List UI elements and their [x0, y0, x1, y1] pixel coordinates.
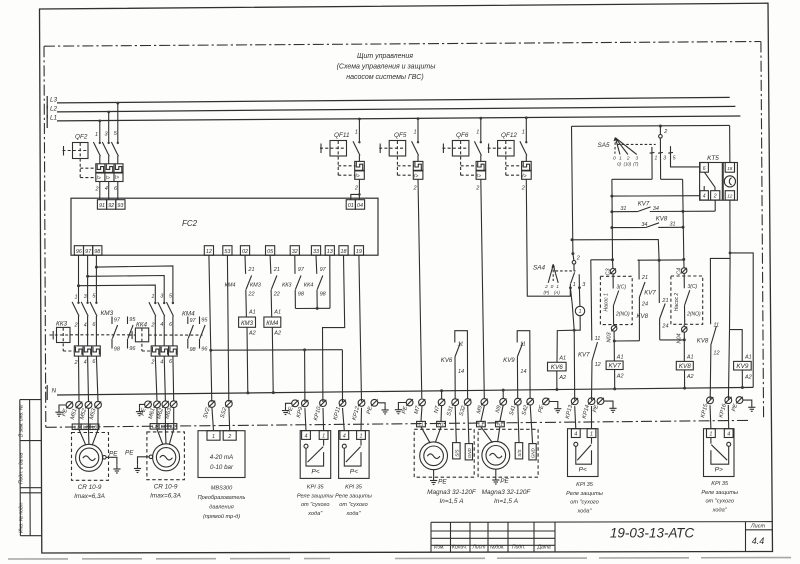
svg-text:QF11: QF11 — [334, 132, 350, 139]
svg-text:Изм.: Изм. — [434, 545, 445, 551]
svg-text:KV8: KV8 — [679, 363, 692, 370]
svg-text:L2: L2 — [161, 424, 167, 429]
svg-text:21: 21 — [641, 275, 648, 281]
svg-text:CR 10-9: CR 10-9 — [154, 484, 178, 491]
wires M7..S42 into pumps — [421, 405, 533, 444]
svg-text:КК4: КК4 — [304, 282, 314, 288]
bus L1 — [47, 115, 740, 128]
svg-text:I>: I> — [355, 174, 359, 180]
svg-text:2: 2 — [150, 360, 154, 366]
wires KP13 KP14 to KPI relay 3 — [575, 406, 592, 429]
svg-text:KV9: KV9 — [736, 363, 749, 370]
svg-text:S/S: S/S — [454, 450, 459, 457]
wire h-run to KV8 branch — [572, 240, 659, 261]
KK3 aux contacts 97-98 95-96 — [112, 317, 133, 349]
contactor KM3 power contacts — [72, 255, 98, 346]
N right riser to KT5-12 net — [730, 253, 753, 388]
svg-text:A2: A2 — [616, 374, 624, 380]
svg-text:Реле защиты: Реле защиты — [701, 490, 738, 496]
svg-text:I>: I> — [115, 175, 119, 181]
svg-text:4: 4 — [574, 432, 577, 438]
svg-text:A1: A1 — [273, 309, 281, 315]
frequency converter FC2 — [71, 198, 378, 255]
svg-text:A1: A1 — [744, 355, 752, 361]
wires to motor 1 terminals — [79, 356, 99, 401]
svg-text:12: 12 — [713, 351, 719, 357]
svg-text:I>: I> — [106, 175, 110, 181]
relay contact KV8 34-31 — [610, 223, 684, 229]
svg-text:2: 2 — [74, 360, 78, 366]
svg-text:21: 21 — [273, 267, 280, 273]
svg-text:98: 98 — [190, 347, 197, 353]
svg-text:хода": хода" — [307, 511, 323, 517]
circuit breaker QF11 — [320, 118, 364, 200]
svg-text:04: 04 — [357, 203, 363, 209]
svg-text:КМ4: КМ4 — [266, 320, 279, 327]
svg-text:Подп. и дата: Подп. и дата — [18, 452, 24, 484]
coil KM3 labels — [225, 267, 256, 337]
svg-text:КМ3: КМ3 — [101, 310, 114, 317]
svg-text:KV8: KV8 — [656, 215, 668, 222]
svg-text:Щит управления: Щит управления — [357, 53, 413, 60]
svg-text:КК4: КК4 — [136, 321, 148, 328]
svg-text:SA4: SA4 — [533, 264, 546, 271]
svg-text:2: 2 — [663, 129, 667, 135]
selector switch SA4 — [548, 264, 575, 283]
coil KM4 labels — [250, 267, 281, 337]
svg-text:11: 11 — [713, 323, 719, 329]
svg-text:53: 53 — [224, 249, 230, 255]
thermal relay KK4 — [129, 328, 203, 356]
svg-text:KV7: KV7 — [578, 352, 590, 359]
svg-text:98: 98 — [298, 292, 305, 298]
svg-text:L2: L2 — [83, 424, 89, 429]
svg-text:12: 12 — [206, 249, 212, 255]
svg-text:14: 14 — [520, 369, 526, 375]
wire FC2-53 to SS2 — [227, 255, 228, 401]
svg-text:I>: I> — [97, 176, 101, 182]
svg-text:KT5: KT5 — [707, 155, 719, 162]
svg-text:(10): (10) — [624, 161, 632, 166]
svg-text:1: 1 — [414, 130, 417, 136]
svg-text:98: 98 — [94, 249, 100, 255]
wire SA5-3 down to C4, pump2 aux, coil KV8 — [676, 179, 693, 389]
svg-text:21: 21 — [661, 298, 668, 304]
circuit breaker QF2 — [63, 102, 124, 200]
circuit breaker QF6 — [442, 117, 485, 399]
svg-text:12: 12 — [727, 194, 733, 199]
svg-text:1: 1 — [709, 432, 712, 438]
svg-text:22: 22 — [247, 292, 254, 298]
relay contact KV7 31-34 — [610, 200, 715, 213]
wire branch to KP9 and KP11 — [211, 348, 343, 402]
motor M2 CR 10-9 — [134, 408, 185, 480]
svg-text:02: 02 — [242, 249, 248, 255]
svg-text:A2: A2 — [558, 375, 566, 381]
svg-text:KV6: KV6 — [551, 364, 564, 371]
time relay KT5 — [700, 163, 738, 201]
svg-text:4: 4 — [305, 433, 308, 439]
svg-text:4: 4 — [703, 194, 706, 200]
svg-text:(Т): (Т) — [633, 161, 639, 166]
bus L3 — [47, 96, 730, 109]
svg-text:Р˂: Р˂ — [350, 469, 358, 476]
svg-text:05: 05 — [267, 249, 274, 255]
svg-text:QF2: QF2 — [75, 134, 88, 141]
svg-text:In=1,5 А: In=1,5 А — [440, 498, 464, 505]
PE ground symbols — [55, 400, 755, 416]
svg-text:хода": хода" — [345, 511, 361, 517]
svg-text:QF12: QF12 — [501, 132, 517, 139]
wire KT5-4 feed — [610, 195, 700, 198]
svg-text:(прямой тр-д): (прямой тр-д) — [203, 513, 240, 520]
title block texts — [434, 524, 765, 551]
svg-text:24: 24 — [661, 324, 668, 330]
wire branches FC2 outputs to KM4 — [79, 266, 173, 303]
svg-text:КК3: КК3 — [282, 282, 292, 288]
pump 2 built-in aux switch (Насос 2) — [671, 276, 703, 324]
svg-text:97: 97 — [320, 267, 327, 273]
svg-text:KPI 35: KPI 35 — [711, 481, 729, 487]
svg-text:97: 97 — [114, 318, 121, 324]
svg-text:Реле защиты: Реле защиты — [566, 491, 603, 497]
svg-text:19: 19 — [356, 249, 362, 255]
circuit breaker QF5 — [379, 117, 423, 398]
svg-text:98: 98 — [114, 347, 121, 353]
svg-text:Р˂: Р˂ — [311, 469, 319, 476]
circuit breaker QF12 — [488, 116, 571, 296]
title block — [431, 522, 772, 552]
svg-text:KPI 35: KPI 35 — [345, 485, 363, 491]
svg-text:Magna3 32-120F: Magna3 32-120F — [427, 489, 477, 496]
wire bus down to KT5-18 — [729, 125, 731, 162]
svg-text:1: 1 — [151, 294, 154, 300]
svg-text:PE: PE — [438, 478, 447, 485]
wire N7 to N bus — [440, 389, 443, 399]
svg-text:L1: L1 — [478, 422, 484, 427]
svg-text:1: 1 — [95, 132, 98, 138]
svg-text:2: 2 — [150, 323, 154, 329]
svg-text:PE: PE — [109, 451, 118, 458]
svg-text:KV7: KV7 — [609, 363, 622, 370]
svg-text:4: 4 — [105, 186, 108, 192]
svg-text:L1: L1 — [418, 422, 424, 427]
svg-text:Лист: Лист — [750, 524, 766, 530]
wire FC2-18 to KP10 — [323, 255, 345, 402]
KK4 aux contacts 97-98 95-96 — [188, 317, 205, 349]
svg-text:4: 4 — [84, 322, 87, 328]
svg-text:A2: A2 — [686, 374, 694, 380]
terminal row labels — [61, 403, 739, 422]
svg-text:11: 11 — [458, 342, 464, 348]
terminal row circles — [66, 397, 743, 409]
svg-text:2: 2 — [475, 186, 479, 192]
svg-text:С4: С4 — [676, 268, 682, 275]
svg-text:1: 1 — [212, 434, 215, 440]
wire FC2-02, aux contact KM4 21-22, coil KM3 — [239, 255, 256, 394]
svg-text:1: 1 — [360, 433, 363, 439]
wires KP9-KP12 to KPI relays — [305, 408, 362, 431]
svg-text:L1: L1 — [74, 424, 80, 429]
svg-text:Инв. № подл.: Инв. № подл. — [18, 502, 24, 533]
svg-text:0): 0) — [617, 161, 621, 166]
neutral bus N — [47, 385, 753, 400]
svg-text:Р˂: Р˂ — [579, 467, 587, 474]
svg-text:1: 1 — [655, 156, 658, 162]
svg-text:2: 2 — [413, 186, 417, 192]
svg-text:4.4: 4.4 — [752, 536, 765, 546]
svg-text:18: 18 — [727, 166, 733, 171]
wire FC2-19 to KP12 — [359, 255, 362, 401]
svg-text:L1: L1 — [152, 424, 158, 429]
svg-text:32: 32 — [292, 249, 298, 255]
svg-text:N: N — [52, 388, 57, 395]
contactor KM4 power contacts — [149, 302, 174, 346]
wire run C4 feed — [638, 259, 684, 262]
selector switch SA5 — [612, 126, 700, 179]
svg-text:2: 2 — [95, 187, 99, 193]
svg-text:N04: N04 — [677, 333, 683, 343]
svg-text:MBS300: MBS300 — [211, 486, 233, 492]
svg-text:31: 31 — [670, 221, 676, 227]
svg-text:A2: A2 — [273, 331, 281, 337]
svg-text:4: 4 — [84, 360, 87, 366]
dry-run protection relay KPI35 #2 — [339, 431, 370, 479]
svg-text:34: 34 — [653, 206, 659, 212]
svg-text:насосом системы ГВС): насосом системы ГВС) — [346, 74, 423, 81]
svg-text:96: 96 — [201, 347, 208, 353]
relay contact KV7 21-24 — [614, 260, 645, 341]
wires to motor 2 terminals — [155, 356, 173, 401]
svg-text:PE: PE — [125, 450, 134, 457]
svg-text:12: 12 — [595, 362, 601, 368]
left attribute column block — [20, 400, 42, 536]
svg-text:4: 4 — [160, 322, 163, 328]
svg-text:A2: A2 — [248, 331, 256, 337]
svg-text:2: 2 — [521, 186, 525, 192]
pump 1 built-in aux switch (Насос 1) — [600, 276, 632, 324]
svg-text:Р˃: Р˃ — [715, 467, 723, 474]
svg-text:A1: A1 — [686, 355, 694, 361]
svg-text:QF6: QF6 — [456, 132, 469, 139]
svg-text:№док.: №док. — [490, 545, 505, 551]
left column rotated texts — [18, 404, 24, 533]
dry-run protection relay KPI35 #4 — [704, 429, 735, 477]
svg-text:31: 31 — [620, 206, 626, 212]
svg-text:КМ4: КМ4 — [225, 282, 236, 288]
relay contact KV8 11-12 to KP15 — [710, 326, 716, 399]
svg-text:I>: I> — [522, 174, 526, 180]
svg-text:1: 1 — [522, 130, 525, 136]
svg-text:34: 34 — [641, 222, 647, 228]
svg-text:KPI 35: KPI 35 — [576, 482, 594, 488]
svg-text:Реле защиты: Реле защиты — [297, 493, 334, 499]
wire FC2-12 to SV2 — [209, 255, 212, 401]
svg-text:2: 2 — [576, 255, 580, 261]
pump P1 Magna3 32-120F — [414, 421, 474, 484]
svg-text:1: 1 — [590, 432, 593, 438]
svg-text:L3: L3 — [92, 424, 98, 429]
svg-text:98: 98 — [320, 292, 327, 298]
svg-text:КМ4: КМ4 — [182, 310, 195, 317]
svg-text:хода": хода" — [576, 508, 592, 514]
svg-text:91: 91 — [99, 203, 105, 209]
svg-text:(Р): (Р) — [543, 290, 549, 295]
svg-text:L3: L3 — [170, 424, 176, 429]
svg-text:KV8: KV8 — [636, 313, 648, 320]
relay contact KV8 21-24 — [659, 260, 684, 340]
svg-text:Насос 2: Насос 2 — [674, 293, 680, 312]
svg-text:19-03-13-АТС: 19-03-13-АТС — [610, 526, 694, 541]
svg-text:В зам. инв. №: В зам. инв. № — [18, 404, 24, 437]
svg-text:A1: A1 — [248, 309, 256, 315]
svg-text:11: 11 — [595, 336, 601, 342]
wire KP13 drop — [573, 329, 576, 401]
float switch contact KV6 11-14 (S31-S32) — [455, 331, 468, 399]
svg-text:3(С): 3(С) — [616, 284, 626, 290]
svg-text:1: 1 — [322, 433, 325, 439]
svg-text:22: 22 — [273, 292, 280, 298]
svg-text:I>: I> — [414, 174, 418, 180]
N label — [52, 388, 57, 395]
svg-text:4-20 mA: 4-20 mA — [210, 454, 233, 461]
dry-run protection relay KPI35 #1 — [300, 431, 331, 479]
svg-text:5: 5 — [673, 155, 676, 161]
svg-text:от "сухого: от "сухого — [705, 499, 734, 505]
svg-text:6: 6 — [703, 166, 706, 172]
svg-text:от "сухого: от "сухого — [570, 500, 599, 506]
pressure transducer MBS300 — [198, 407, 245, 478]
svg-text:GND: GND — [531, 448, 536, 459]
svg-text:хода": хода" — [712, 507, 728, 513]
svg-text:In=1,5 А: In=1,5 А — [494, 498, 518, 505]
svg-text:PE: PE — [500, 478, 509, 485]
bus labels — [50, 97, 58, 122]
svg-text:(Схема управления и защиты: (Схема управления и защиты — [337, 64, 437, 71]
wire FC2-05, aux contact KM3 21-22, coil KM4 — [264, 255, 281, 394]
svg-text:4: 4 — [160, 359, 163, 365]
svg-text:2: 2 — [713, 194, 717, 200]
svg-text:A1: A1 — [558, 356, 566, 362]
svg-text:L3: L3 — [50, 97, 58, 104]
svg-text:KV7: KV7 — [638, 200, 650, 207]
svg-text:от "сухого: от "сухого — [301, 502, 330, 508]
float switch contact KV9 11-14 (S41-S42) — [517, 331, 530, 399]
wires KP15 KP16 to KPI relay 4 — [710, 405, 729, 429]
bus L2 — [47, 106, 735, 119]
svg-text:SA5: SA5 — [598, 142, 611, 149]
svg-text:1: 1 — [476, 130, 479, 136]
svg-text:давления: давления — [209, 505, 233, 511]
svg-text:24: 24 — [641, 302, 648, 308]
svg-text:Подп.: Подп. — [512, 545, 525, 551]
bottom scan edge artifact — [8, 558, 800, 560]
svg-text:0: 0 — [613, 155, 616, 161]
svg-text:3(С): 3(С) — [688, 284, 698, 290]
svg-text:N1: N1 — [438, 422, 444, 427]
control bus wire from SA5/KT5 area — [572, 125, 730, 128]
svg-text:1: 1 — [355, 130, 358, 136]
svg-text:33: 33 — [313, 249, 319, 255]
svg-text:FC2: FC2 — [182, 219, 198, 228]
svg-text:L2: L2 — [50, 106, 58, 113]
svg-text:2: 2 — [74, 323, 78, 329]
svg-text:1: 1 — [579, 309, 582, 315]
svg-text:Imax=6,3A: Imax=6,3A — [150, 493, 181, 500]
svg-text:18: 18 — [341, 249, 347, 255]
svg-text:KV7: KV7 — [644, 289, 656, 296]
svg-text:S/S: S/S — [517, 450, 522, 457]
svg-text:97: 97 — [85, 249, 92, 255]
motor M1 CR 10-9 — [72, 408, 121, 480]
svg-text:A2: A2 — [744, 374, 752, 380]
svg-text:97: 97 — [298, 267, 305, 273]
relay contact KV7 11-12 to KP14 — [591, 260, 613, 400]
SA4 contact 3 column with indicator lamp — [574, 274, 585, 330]
svg-text:96: 96 — [76, 249, 82, 255]
svg-text:KV8: KV8 — [697, 338, 709, 345]
svg-text:1: 1 — [75, 294, 78, 300]
svg-text:KV9: KV9 — [503, 357, 515, 364]
svg-text:13: 13 — [327, 249, 333, 255]
svg-text:2(NO): 2(NO) — [686, 311, 701, 317]
svg-text:Дата: Дата — [537, 545, 551, 551]
svg-text:KPI 35: KPI 35 — [307, 485, 325, 491]
svg-text:2: 2 — [227, 434, 231, 440]
wire bus left drop to SA4 circle 2 — [571, 126, 576, 264]
svg-text:1: 1 — [573, 282, 576, 288]
svg-text:0-10 bar: 0-10 bar — [210, 464, 234, 471]
svg-text:КК3: КК3 — [56, 321, 68, 328]
panel title — [337, 53, 437, 81]
svg-text:Колич.: Колич. — [452, 545, 467, 551]
svg-text:95: 95 — [201, 318, 208, 324]
svg-text:С3: С3 — [605, 268, 611, 276]
wire KT5-12 net with branches — [710, 200, 742, 400]
svg-text:Лист: Лист — [472, 545, 486, 551]
svg-text:Насос 1: Насос 1 — [603, 293, 609, 312]
svg-text:КМ3: КМ3 — [250, 282, 262, 288]
svg-text:93: 93 — [117, 203, 123, 209]
wires FC2-32 FC2-33 aux contacts KK3 KK4 97-98 to FC2-13 — [295, 255, 330, 310]
svg-text:(А): (А) — [554, 290, 560, 295]
svg-text:Magna3 32-120F: Magna3 32-120F — [482, 489, 532, 496]
SA4 contact 1 column — [569, 264, 575, 330]
svg-text:QF5: QF5 — [394, 132, 407, 139]
svg-text:I>: I> — [477, 174, 481, 180]
svg-text:01: 01 — [348, 203, 354, 209]
svg-text:Реле защиты: Реле защиты — [335, 493, 372, 499]
dry-run protection relay KPI35 #3 — [568, 429, 599, 477]
svg-text:GND: GND — [467, 448, 472, 459]
pump P2 Magna3 32-120F — [477, 421, 539, 484]
svg-text:2: 2 — [354, 186, 358, 192]
svg-text:A1: A1 — [616, 354, 624, 360]
relay coil KV6 — [548, 330, 575, 391]
svg-text:96: 96 — [129, 346, 136, 352]
svg-text:2(NO): 2(NO) — [615, 312, 630, 318]
svg-text:от "сухого: от "сухого — [339, 502, 368, 508]
dash-dot panel boundary (Щит управления) — [44, 42, 764, 428]
svg-text:CR 10-9: CR 10-9 — [78, 484, 102, 491]
svg-text:N03: N03 — [607, 331, 613, 342]
svg-text:97: 97 — [190, 318, 197, 324]
svg-text:KV6: KV6 — [441, 357, 453, 364]
svg-text:4: 4 — [343, 433, 346, 439]
svg-text:11: 11 — [520, 342, 526, 348]
thermal relay KK3 — [50, 327, 132, 356]
svg-text:4: 4 — [727, 432, 730, 438]
